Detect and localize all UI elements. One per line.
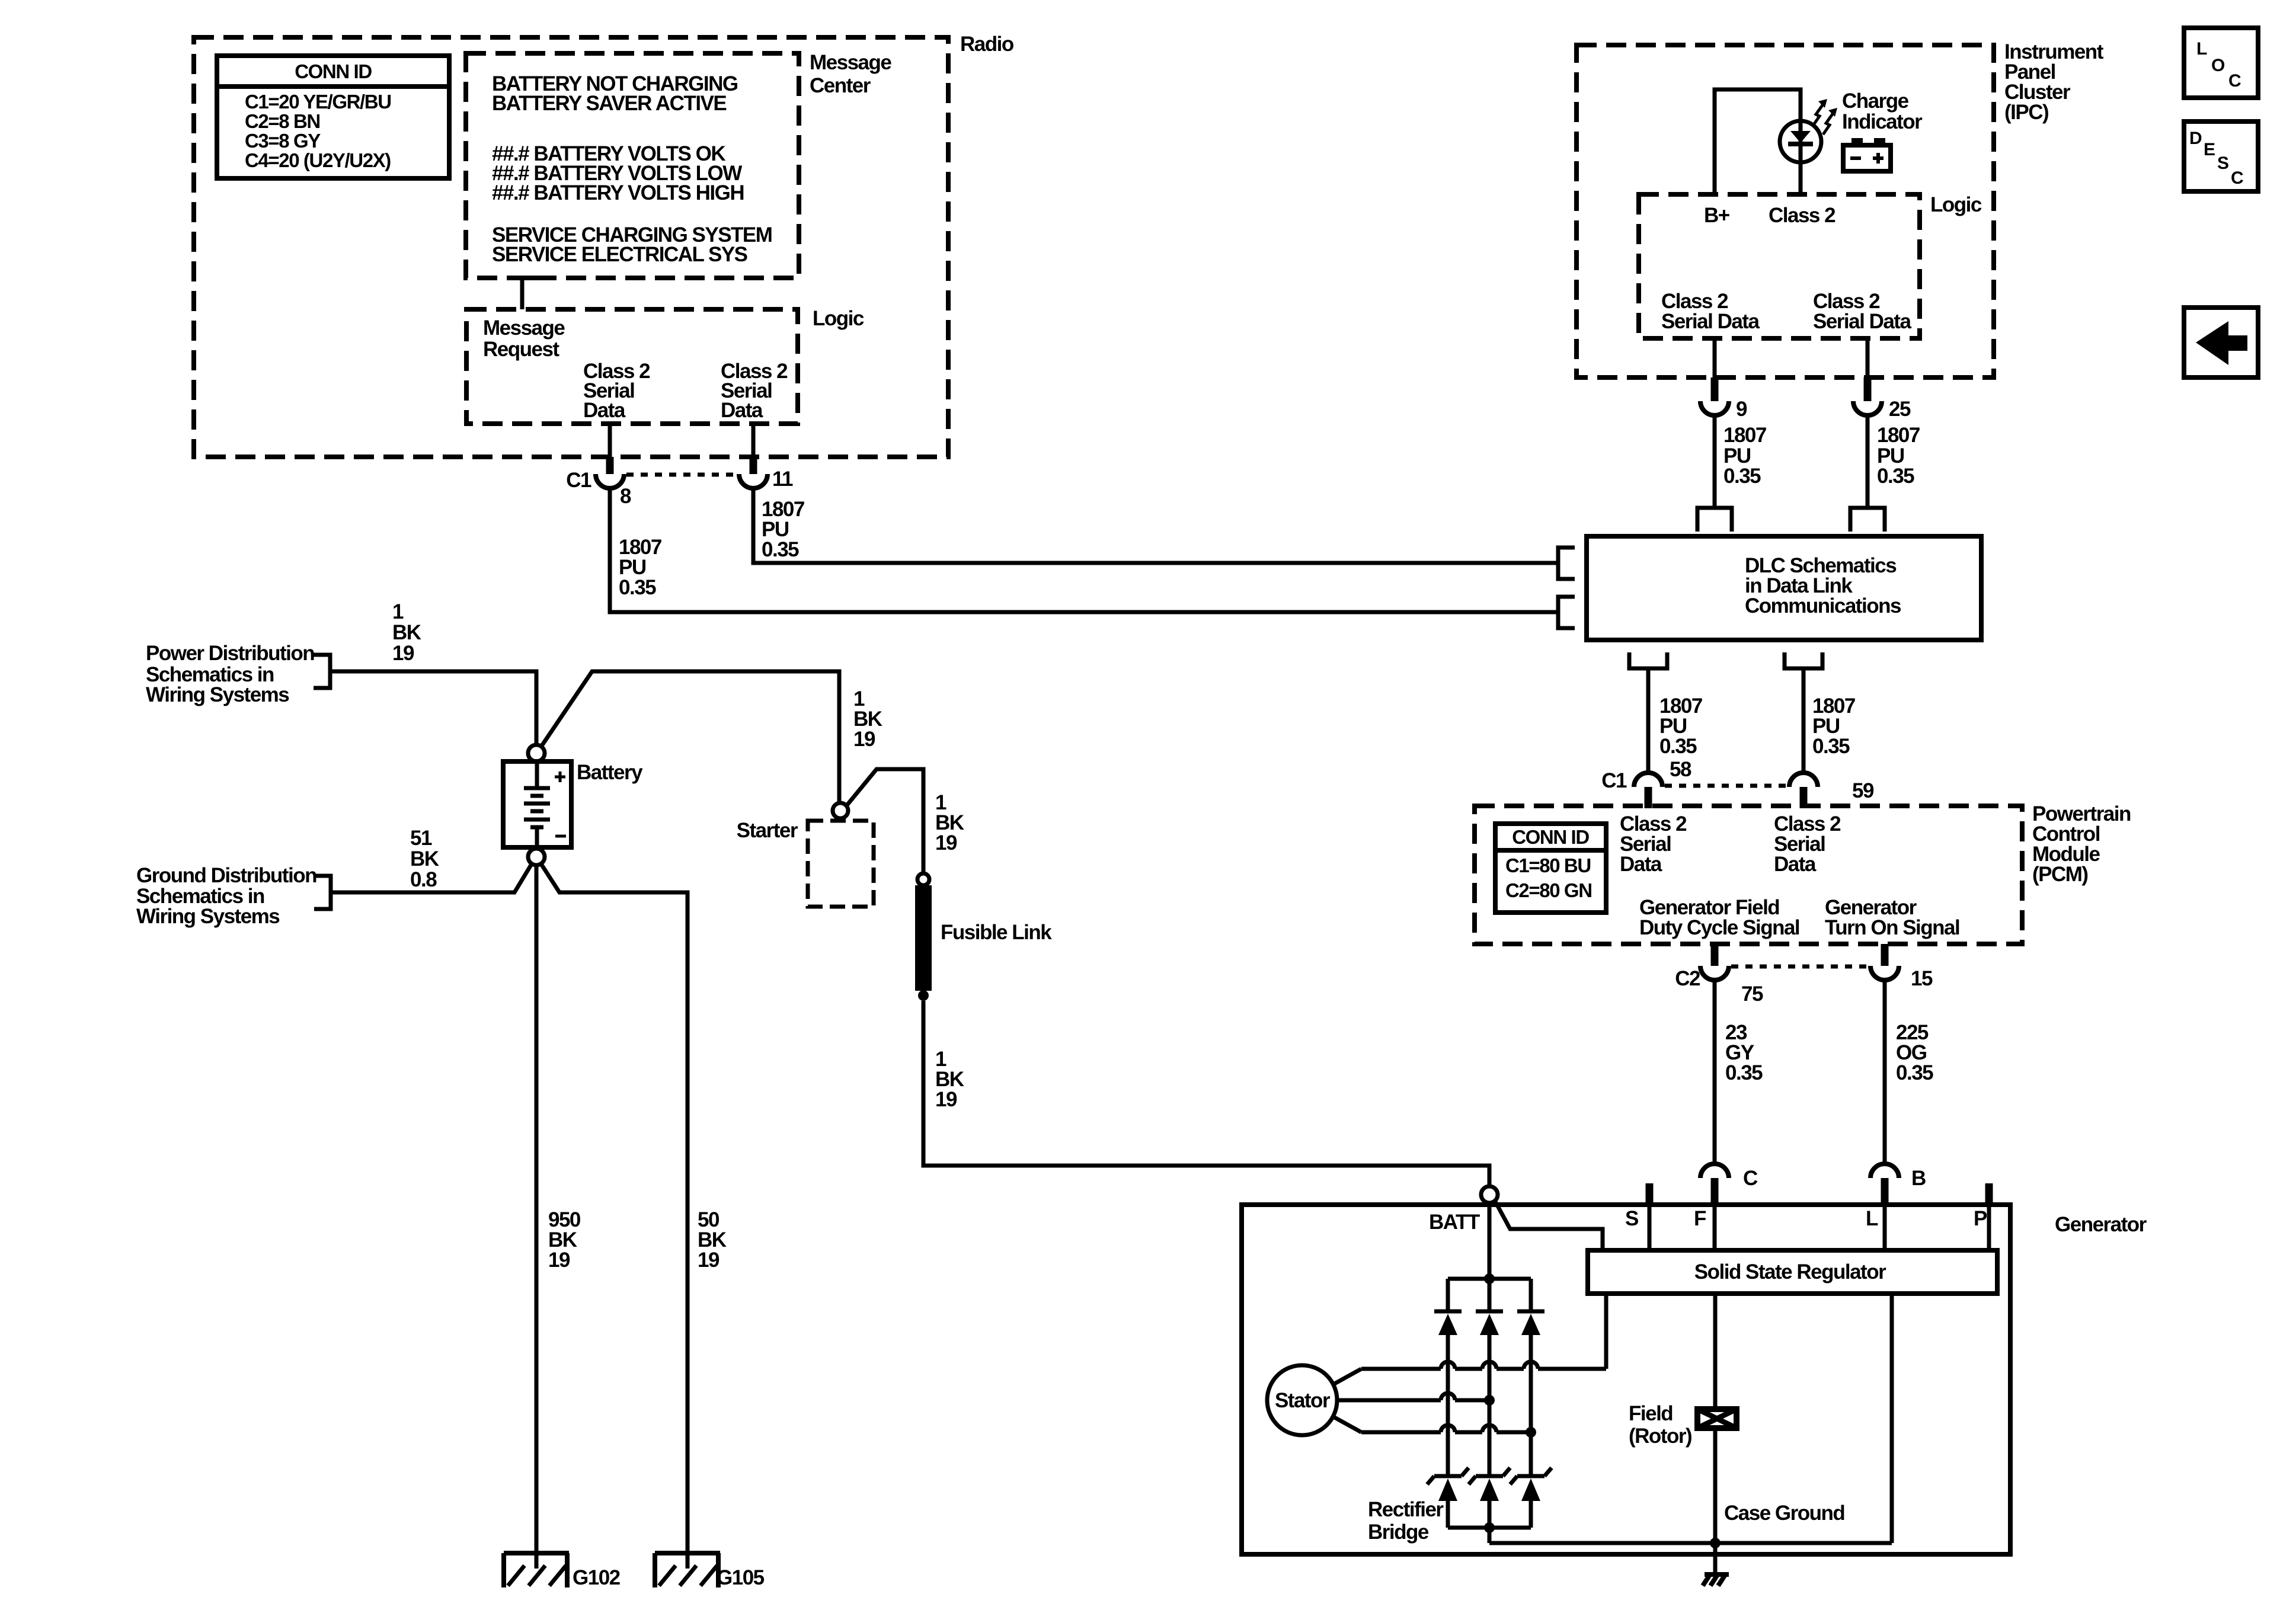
svg-text:Solid State Regulator: Solid State Regulator [1694, 1260, 1886, 1283]
svg-text:Ground Distribution: Ground Distribution [136, 864, 316, 887]
svg-text:8: 8 [620, 485, 631, 508]
wire logic pin 25 [1866, 338, 1870, 377]
svg-text:Starter: Starter [737, 819, 798, 842]
svg-text:Message: Message [810, 51, 891, 74]
connector tie line (dashed) [626, 473, 737, 477]
connector C1 pin 58 (PCM) [1634, 773, 1662, 787]
svg-text:C1=20 YE/GR/BU: C1=20 YE/GR/BU [245, 91, 391, 113]
wire message request (MC to Logic) [507, 276, 538, 280]
ground G105 [655, 1553, 720, 1587]
wire BATT to rectifier bus [1488, 1203, 1492, 1279]
node battery negative circle [528, 849, 545, 865]
svg-text:Bridge: Bridge [1368, 1521, 1429, 1544]
svg-text:Logic: Logic [1930, 193, 1982, 216]
field rotor symbol [1697, 1409, 1737, 1543]
connector tie line 58-59 (dashed) [1665, 784, 1787, 788]
svg-text:BATTERY SAVER ACTIVE: BATTERY SAVER ACTIVE [492, 92, 726, 115]
svg-text:Request: Request [483, 338, 559, 361]
lightning arrows [1813, 99, 1837, 135]
svg-text:Logic: Logic [813, 307, 864, 330]
svg-text:C1=80 BU: C1=80 BU [1505, 854, 1591, 876]
DESC box [2184, 121, 2258, 191]
svg-text:BK: BK [410, 847, 439, 870]
conn id table (PCM) [1495, 824, 1606, 913]
svg-text:C2=80 GN: C2=80 GN [1505, 879, 1592, 901]
wire 75 to generator C [1713, 980, 1717, 1164]
stator circle [1267, 1365, 1337, 1435]
wire starter to fusible link [846, 769, 923, 873]
svg-text:0.35: 0.35 [1896, 1061, 1933, 1084]
svg-text:Rectifier: Rectifier [1368, 1498, 1444, 1521]
wire bus to case ground run [1488, 1528, 1492, 1543]
svg-text:Fusible Link: Fusible Link [941, 921, 1052, 944]
svg-text:Data: Data [583, 399, 626, 422]
LED charge indicator [1780, 121, 1821, 162]
rectifier bottom bus [1448, 1526, 1531, 1530]
svg-text:BK: BK [392, 621, 421, 644]
stator phase bottom [1334, 1417, 1536, 1438]
rectifier top bus [1448, 1277, 1531, 1281]
off-page bracket (lower, into DLC) [1558, 597, 1575, 628]
message center text [492, 72, 772, 266]
svg-text:0.8: 0.8 [410, 868, 437, 891]
svg-text:58: 58 [1670, 758, 1691, 781]
terminal S stub [1646, 1183, 1654, 1205]
svg-text:51: 51 [410, 827, 432, 850]
svg-text:15: 15 [1911, 967, 1933, 990]
wires terminals to regulator [1648, 1205, 1652, 1250]
battery B1 [503, 761, 571, 847]
connector pin 15 (PCM bottom) [1881, 944, 1889, 966]
svg-text:Wiring Systems: Wiring Systems [146, 683, 289, 706]
bracket into DLC top (right) [1850, 508, 1885, 532]
solid state regulator box [1588, 1250, 1997, 1294]
rectifier branch 1 upper diode [1434, 1279, 1462, 1476]
svg-text:0.35: 0.35 [762, 538, 799, 561]
wire ground distribution to battery [331, 864, 532, 892]
connector C1 pin 8 (radio) [596, 474, 624, 488]
wire 15 to generator B [1883, 980, 1887, 1164]
svg-text:C1: C1 [566, 469, 591, 492]
stator phase top [1334, 1362, 1606, 1384]
svg-text:C: C [2231, 168, 2244, 188]
wire pin 11 to DLC [753, 488, 1558, 563]
bracket below DLC (right) [1785, 652, 1822, 668]
rectifier branch 2 lower avalanche diode [1469, 1468, 1510, 1528]
svg-text:C2=8 BN: C2=8 BN [245, 110, 320, 132]
wire B+ loop [1715, 89, 1801, 194]
svg-text:C1: C1 [1601, 769, 1627, 792]
svg-text:25: 25 [1889, 398, 1911, 421]
svg-text:L: L [2196, 39, 2207, 59]
connector C2 pin 75 (PCM bottom) [1711, 944, 1719, 966]
svg-text:Communications: Communications [1745, 594, 1901, 617]
svg-text:(IPC): (IPC) [2004, 101, 2048, 124]
radio box (dashed) [194, 37, 948, 457]
off-page bracket (upper, into DLC) [1558, 548, 1575, 579]
svg-text:Center: Center [810, 74, 871, 97]
rectifier branch 1 lower avalanche diode [1427, 1468, 1469, 1528]
svg-text:Stator: Stator [1275, 1389, 1331, 1412]
svg-text:Field: Field [1629, 1402, 1673, 1425]
svg-text:0.35: 0.35 [1877, 465, 1914, 488]
svg-text:Case Ground: Case Ground [1724, 1502, 1844, 1525]
wire from logic pin 11 [752, 424, 756, 457]
svg-text:19: 19 [935, 831, 957, 854]
svg-text:C4=20 (U2Y/U2X): C4=20 (U2Y/U2X) [245, 149, 391, 171]
wire BATT to regulator [1495, 1201, 1603, 1250]
wire LED to logic [1799, 159, 1803, 194]
svg-text:Power Distribution: Power Distribution [146, 642, 314, 665]
rectifier branch 2 upper diode [1476, 1279, 1503, 1476]
svg-text:19: 19 [548, 1249, 570, 1272]
node starter circle [833, 803, 848, 818]
rectifier branch 3 lower avalanche diode [1510, 1468, 1552, 1528]
svg-text:19: 19 [698, 1249, 720, 1272]
svg-text:S: S [1625, 1207, 1638, 1230]
conn id table (radio) [217, 56, 449, 178]
wire battery negative to G105 [541, 864, 687, 1569]
svg-text:CONN ID: CONN ID [1512, 826, 1589, 848]
DLC Schematics box [1587, 536, 1981, 640]
svg-text:19: 19 [935, 1088, 957, 1111]
rectifier branch 3 upper diode [1517, 1279, 1544, 1476]
PCM box (dashed) [1475, 806, 2022, 944]
svg-text:D: D [2189, 129, 2202, 148]
svg-text:O: O [2211, 56, 2225, 75]
svg-text:G102: G102 [573, 1566, 621, 1589]
connector B (generator) [1870, 1164, 1899, 1178]
svg-text:BATT: BATT [1429, 1211, 1480, 1234]
svg-text:SERVICE ELECTRICAL SYS: SERVICE ELECTRICAL SYS [492, 243, 747, 266]
svg-text:Generator: Generator [2055, 1213, 2147, 1236]
junction dot case ground [1710, 1538, 1721, 1548]
svg-text:C: C [2228, 71, 2241, 91]
connector tie line 75-15 (dashed) [1731, 965, 1868, 969]
connector C (generator) [1700, 1164, 1729, 1178]
connector C1 pin 59 (PCM) [1789, 773, 1818, 787]
svg-text:Serial Data: Serial Data [1661, 310, 1760, 333]
svg-text:Battery: Battery [577, 761, 643, 784]
wire fusible link to generator BATT [923, 1001, 1489, 1186]
svg-text:11: 11 [772, 468, 793, 491]
generator box [1242, 1205, 2010, 1554]
svg-text:P: P [1974, 1207, 1987, 1230]
IPC box (dashed) [1576, 45, 1994, 377]
svg-text:Data: Data [721, 399, 763, 422]
svg-text:1: 1 [392, 600, 404, 623]
stator phase middle [1337, 1393, 1495, 1406]
wire logic pin 9 [1713, 338, 1717, 377]
wire pin 8 to DLC [610, 488, 1558, 612]
message center box (dashed) [466, 53, 799, 278]
svg-text:Serial Data: Serial Data [1813, 310, 1911, 333]
svg-text:59: 59 [1852, 779, 1874, 802]
connector C1 pin 11 (radio) [739, 474, 768, 488]
svg-text:Message: Message [483, 316, 565, 340]
ground symbol (case ground) [1703, 1574, 1729, 1586]
wire 25 to DLC [1866, 415, 1870, 508]
wire battery to starter [541, 671, 839, 803]
svg-text:E: E [2204, 140, 2215, 159]
svg-text:0.35: 0.35 [1659, 735, 1697, 758]
svg-text:Data: Data [1774, 853, 1817, 876]
wire regulator to case ground [1890, 1294, 1894, 1543]
connector pin 25 [1853, 401, 1882, 415]
wire regulator to stator phase [1604, 1294, 1609, 1369]
connector pin 9 [1700, 401, 1729, 415]
svg-text:1807: 1807 [1723, 424, 1766, 447]
bracket below DLC (left) [1629, 652, 1667, 668]
case ground wire [1489, 1541, 1892, 1545]
svg-text:Indicator: Indicator [1842, 110, 1923, 133]
wire DLC to PCM pin 59 [1802, 668, 1806, 772]
node BATT circle [1481, 1186, 1498, 1203]
svg-text:Turn On Signal: Turn On Signal [1825, 916, 1959, 939]
svg-text:Wiring Systems: Wiring Systems [136, 905, 280, 928]
wire battery negative to G102 [535, 865, 539, 1569]
fusible link FL [915, 873, 932, 1001]
svg-text:19: 19 [853, 728, 875, 751]
ground G102 [504, 1553, 569, 1587]
svg-text:Charge: Charge [1842, 89, 1909, 113]
svg-text:Data: Data [1620, 853, 1662, 876]
svg-text:B+: B+ [1704, 204, 1730, 227]
svg-text:B: B [1911, 1167, 1926, 1190]
battery icon (IPC) [1843, 138, 1891, 171]
wire DLC to PCM pin 58 [1646, 668, 1651, 772]
svg-text:9: 9 [1736, 398, 1747, 421]
terminal P stub [1985, 1183, 1993, 1205]
svg-text:(Rotor): (Rotor) [1629, 1425, 1691, 1448]
svg-text:0.35: 0.35 [1725, 1061, 1763, 1084]
svg-text:S: S [2217, 153, 2229, 173]
svg-text:0.35: 0.35 [1812, 735, 1850, 758]
wire from logic pin 8 [608, 424, 612, 457]
svg-text:0.35: 0.35 [1723, 465, 1761, 488]
wire 9 to DLC [1713, 415, 1717, 508]
svg-text:Duty Cycle Signal: Duty Cycle Signal [1639, 916, 1799, 939]
node battery positive circle [528, 745, 545, 761]
svg-text:F: F [1694, 1207, 1706, 1230]
wire to case ground symbol [1713, 1543, 1718, 1575]
LOC box [2184, 28, 2258, 98]
svg-text:CONN ID: CONN ID [295, 60, 372, 82]
back arrow box [2184, 308, 2258, 377]
off-page bracket power [314, 655, 330, 688]
svg-text:(PCM): (PCM) [2032, 863, 2088, 886]
logic box (IPC, dashed) [1639, 194, 1920, 338]
bracket into DLC top (left) [1697, 508, 1732, 532]
svg-text:75: 75 [1741, 982, 1763, 1006]
logic box (radio, dashed) [466, 309, 798, 424]
svg-text:0.35: 0.35 [619, 576, 656, 599]
svg-text:C3=8 GY: C3=8 GY [245, 130, 321, 152]
junction dot bottom bus [1484, 1522, 1495, 1533]
starter box (dashed) [808, 821, 874, 907]
svg-text:G105: G105 [717, 1566, 765, 1589]
svg-text:Class 2: Class 2 [1769, 204, 1835, 227]
svg-text:Radio: Radio [960, 33, 1014, 56]
svg-text:19: 19 [392, 642, 414, 665]
junction dot bus/BATT [1484, 1273, 1495, 1284]
off-page bracket ground [314, 876, 331, 909]
svg-text:L: L [1866, 1207, 1878, 1230]
svg-text:C2: C2 [1675, 967, 1700, 990]
svg-text:1807: 1807 [1877, 424, 1920, 447]
svg-text:C: C [1743, 1167, 1758, 1190]
svg-text:##.# BATTERY VOLTS HIGH: ##.# BATTERY VOLTS HIGH [492, 181, 744, 204]
wire regulator to field [1713, 1294, 1718, 1409]
wire power to battery [330, 671, 536, 745]
